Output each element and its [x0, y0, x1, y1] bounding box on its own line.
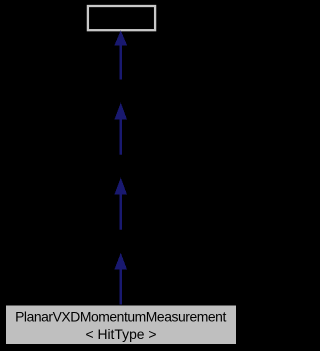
inheritance arrow 2 head: [114, 103, 127, 120]
inheritance arrow 4 shaft (wire): [120, 270, 123, 306]
inheritance arrow 1 shaft (wire): [120, 45, 123, 80]
node: current class box PlanarVXDMomentumMeasurement< HitType >: [6, 305, 237, 345]
svg-text:< HitType >: < HitType >: [85, 326, 156, 342]
svg-text:PlanarVXDMomentumMeasurement: PlanarVXDMomentumMeasurement: [15, 308, 226, 324]
inheritance arrow 3 shaft (wire): [120, 195, 123, 230]
node: top ancestor class box (truncated, empty): [88, 6, 155, 30]
inheritance arrow 3 head: [114, 178, 127, 195]
inheritance arrow 4 head: [114, 253, 127, 270]
inheritance arrow 1 head: [114, 30, 127, 45]
inheritance arrow 2 shaft (wire): [120, 120, 123, 155]
